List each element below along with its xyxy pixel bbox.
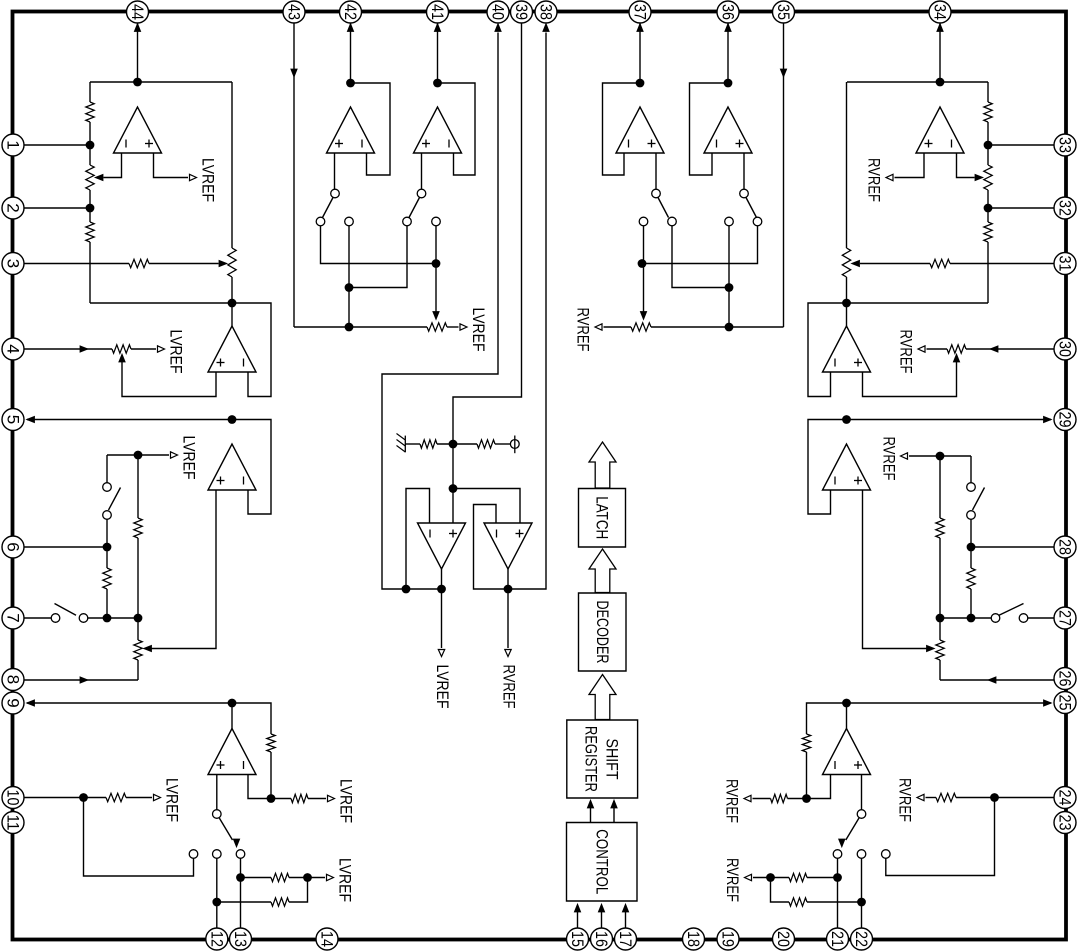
- svg-text:7: 7: [4, 613, 23, 622]
- wire U13 feedback loop box: [808, 420, 847, 515]
- op-amp U10: [704, 107, 752, 153]
- wire pin22 node to R23: [807, 901, 862, 903]
- switch S10 contact b: [857, 850, 866, 859]
- wire node to U14 apex: [846, 703, 848, 729]
- node U4 output junction: [228, 699, 237, 708]
- LVREF pointer pin4 row: [158, 346, 165, 352]
- svg-text:17: 17: [616, 931, 635, 947]
- RVREF pointer pin24 row: [917, 794, 924, 800]
- pin 39: [511, 1, 533, 23]
- wire S6 left contact to P6 wiper: [643, 226, 645, 312]
- wire pin12 node to R11: [217, 901, 271, 903]
- wire node down to switch S1: [106, 455, 108, 483]
- wire S5 right contact to P5 wiper: [435, 226, 437, 312]
- arrow pin15 into control: [574, 904, 580, 912]
- svg-text:LVREF: LVREF: [469, 308, 488, 352]
- wire R8 to LVREF arrow: [308, 798, 326, 800]
- wire S2 to junction nodes: [88, 617, 138, 619]
- wire pin 10 row: [25, 797, 107, 799]
- wire R19 to inverting node: [806, 752, 808, 799]
- node P5 top junction: [345, 323, 354, 332]
- wiper arrow P3: [119, 354, 125, 362]
- wire S9 to junction nodes: [940, 617, 991, 619]
- svg-text:33: 33: [1056, 137, 1075, 153]
- wire U14 inverting lead: [807, 775, 831, 799]
- node pin1 junction: [86, 141, 95, 150]
- wire pot to pin2 node: [89, 190, 91, 208]
- wire right feedback row horizontal: [847, 302, 989, 304]
- wire pin 31: [950, 263, 1054, 265]
- potentiometer P9: [947, 345, 966, 353]
- wire pin 27 to switch S9: [1028, 617, 1054, 619]
- pin 1: [2, 134, 24, 156]
- pin 22: [851, 928, 873, 950]
- wire U11 noninverting output to RVREF arrow: [895, 153, 925, 178]
- wire pin 9 row: [27, 702, 232, 704]
- wiper arrow P5: [433, 312, 439, 320]
- potentiometer P5: [427, 323, 447, 331]
- switch S3 contact a: [189, 850, 198, 859]
- arrow pin4 direction: [80, 346, 88, 352]
- potentiometer P10: [936, 640, 944, 660]
- wire U4 inverting lead: [248, 775, 271, 799]
- arrow into pin 29: [1044, 416, 1052, 422]
- LVREF pointer at U1: [190, 174, 197, 180]
- arrow into pin 40: [495, 24, 501, 32]
- RVREF pointer at U11: [886, 174, 893, 180]
- wire node to R2: [89, 208, 91, 222]
- svg-text:CONTROL: CONTROL: [592, 829, 611, 894]
- wire pin 8: [25, 679, 139, 681]
- node U1 output junction: [133, 78, 142, 87]
- pin 9: [2, 692, 24, 714]
- RVREF pointer row C right: [745, 874, 752, 880]
- wire ground to R12: [405, 443, 420, 445]
- wire pin 33: [988, 144, 1054, 146]
- wire node down to R4: [137, 455, 139, 518]
- arrow into pin 38: [543, 24, 549, 32]
- node right row a junction: [638, 259, 647, 268]
- wire pot to pin32 node: [987, 190, 989, 208]
- resistor R22: [789, 873, 807, 881]
- pin 6: [2, 536, 24, 558]
- node reference divider junction: [449, 440, 458, 449]
- svg-text:RVREF: RVREF: [500, 665, 519, 709]
- wire U2 noninverting lead to P3 wiper: [122, 361, 216, 397]
- arrow into pin 37: [637, 24, 643, 32]
- svg-text:20: 20: [774, 931, 793, 947]
- LVREF pointer P5 row: [460, 324, 467, 330]
- wire R15 down to feedback row: [987, 242, 989, 303]
- arrow decoder to latch output: [589, 442, 616, 488]
- arrow control to shift register a: [587, 800, 593, 808]
- resistor R23: [789, 898, 807, 906]
- wire U6 noninverting lead to switch S5 pivot: [421, 153, 423, 189]
- switch S5 blade: [409, 198, 420, 218]
- wire contact b to pin 22: [861, 859, 863, 929]
- switch S7 contact left: [725, 217, 734, 226]
- op-amp U7 LVREF buffer: [418, 523, 466, 569]
- pin 12: [206, 928, 228, 950]
- wire U4 noninverting lead to switch S3 pivot: [216, 775, 218, 810]
- switch S2 contact left: [51, 614, 60, 623]
- switch S4 blade: [323, 198, 334, 218]
- svg-text:10: 10: [4, 790, 23, 806]
- switch S5 contact right: [432, 217, 441, 226]
- wire node to U4 apex: [231, 703, 233, 729]
- svg-text:32: 32: [1056, 200, 1075, 216]
- wire reference node to right buffer: [453, 489, 520, 524]
- wire U9 feedback loop box: [603, 83, 641, 175]
- switch S9 contact right: [1019, 614, 1028, 623]
- wire U13 noninverting lead to P10 wiper: [863, 490, 928, 649]
- svg-text:13: 13: [231, 931, 250, 947]
- wire pin 37 to output node: [639, 24, 641, 84]
- wire node to U12 apex: [846, 303, 848, 326]
- svg-text:44: 44: [128, 4, 147, 20]
- RVREF node row wire: [909, 455, 971, 457]
- wire pin 29 row: [847, 419, 1052, 421]
- wire U10 noninverting lead to switch S7 pivot: [743, 153, 745, 189]
- wire R16 to P8 wiper: [860, 263, 930, 265]
- arrow pin26 direction: [988, 677, 996, 683]
- pin 20: [773, 928, 795, 950]
- wire output node horizontal: [847, 81, 988, 83]
- potentiometer P4: [134, 640, 142, 660]
- arrow pin16 into control: [598, 904, 604, 912]
- wire S7 left contact down: [728, 226, 730, 327]
- wire pin 24 row: [956, 797, 1054, 799]
- arrow pin8 direction: [80, 677, 88, 683]
- svg-text:RVREF: RVREF: [880, 437, 899, 481]
- op-amp U12: [823, 326, 871, 372]
- wire node to R20: [788, 798, 807, 800]
- wire pin 7 to switch S2: [25, 617, 52, 619]
- wire P2 to node: [231, 277, 233, 303]
- pin 34: [929, 1, 951, 23]
- switch S7 pivot: [740, 189, 749, 198]
- wire R20 to RVREF arrow: [753, 798, 771, 800]
- wire pin 6: [25, 546, 108, 548]
- switch S4 contact right: [345, 217, 354, 226]
- svg-text:3: 3: [4, 259, 23, 268]
- wire pin 15 to control: [577, 905, 579, 928]
- svg-text:34: 34: [931, 4, 950, 20]
- wire pin 32: [988, 207, 1054, 209]
- wire P3 to LVREF arrow: [131, 348, 156, 350]
- resistor R13: [477, 440, 495, 448]
- wire U1 noninverting output to LVREF arrow: [154, 153, 189, 178]
- LVREF pointer row C: [327, 874, 334, 880]
- node pin7 junction a: [103, 614, 112, 623]
- switch S3 blade: [219, 818, 232, 840]
- pin 43: [283, 1, 305, 23]
- svg-text:RVREF: RVREF: [896, 778, 915, 822]
- wire pin 17 to control: [625, 905, 627, 928]
- resistor R15: [984, 222, 992, 242]
- arrow pin17 into control: [622, 904, 628, 912]
- block CONTROL: [567, 823, 638, 902]
- wire U12 noninverting lead to P9 wiper: [863, 361, 957, 397]
- node pin10 junction: [79, 793, 88, 802]
- svg-text:LVREF: LVREF: [167, 330, 186, 374]
- node U14 inverting junction: [802, 794, 811, 803]
- wire R13 to terminal: [495, 443, 510, 445]
- svg-text:RVREF: RVREF: [723, 858, 742, 902]
- wire R2 down to feedback row: [89, 242, 91, 303]
- wire pin 4: [25, 348, 113, 350]
- wire left branch down: [89, 82, 91, 102]
- node U4 inverting junction: [267, 794, 276, 803]
- wire pin35 row to P6: [651, 326, 784, 328]
- arrow into pin 42: [347, 24, 353, 32]
- switch S6 contact right: [668, 217, 677, 226]
- wire R22 to RVREF node: [753, 877, 789, 879]
- node right row b junction: [725, 283, 734, 292]
- svg-text:5: 5: [4, 415, 23, 424]
- wire P9 to RVREF arrow: [927, 348, 948, 350]
- arrow into pin 41: [434, 24, 440, 32]
- node pin22 junction: [857, 898, 866, 907]
- wire U5 feedback loop box: [351, 83, 391, 175]
- wire pin 36 to output node: [727, 24, 729, 84]
- wire U6 feedback loop box: [438, 83, 476, 175]
- pin 15: [567, 928, 589, 950]
- svg-text:36: 36: [719, 4, 738, 20]
- wire P5 to LVREF arrow: [447, 326, 459, 328]
- node pin7 junction b: [134, 614, 143, 623]
- resistor R3: [129, 259, 149, 267]
- RVREF pointer P6 row: [595, 324, 602, 330]
- pin 4: [2, 338, 24, 360]
- resistor R1: [86, 102, 94, 122]
- wire R23 up to RVREF node: [771, 878, 790, 903]
- LVREF pointer pin10 row: [154, 794, 161, 800]
- switch S3 contact b: [213, 850, 222, 859]
- pin 26: [1054, 668, 1076, 690]
- wire contact c to pin 13: [240, 859, 242, 929]
- pin 5: [2, 409, 24, 431]
- resistor R12: [420, 440, 437, 448]
- wire S8 to pin28 node: [970, 519, 972, 547]
- svg-text:LATCH: LATCH: [593, 496, 612, 539]
- node pin29 junction: [842, 415, 851, 424]
- resistor R16: [930, 259, 950, 267]
- switch S1 contact bottom: [103, 511, 112, 520]
- node U10 output junction: [724, 79, 733, 88]
- arrow pin43 direction: [291, 69, 297, 77]
- svg-text:39: 39: [512, 4, 531, 20]
- wire U7 feedback: [406, 489, 430, 590]
- wire pin 1: [25, 144, 91, 146]
- wire pin 39 vertical: [453, 12, 522, 523]
- node U7 feedback junction: [402, 585, 411, 594]
- wire P6 to RVREF arrow: [604, 326, 632, 328]
- pin 30: [1054, 338, 1076, 360]
- wire S1 to pin6 node: [106, 519, 108, 547]
- svg-text:28: 28: [1056, 539, 1075, 555]
- switch S10 contact c: [882, 850, 891, 859]
- wire pin44 to output node: [137, 24, 139, 83]
- wire pin 42 to output node: [350, 24, 352, 84]
- svg-text:12: 12: [207, 931, 226, 947]
- wire output node to R7: [232, 703, 271, 734]
- arrow switch S3 blade: [233, 839, 239, 847]
- switch S4 contact left: [316, 217, 325, 226]
- wire node to P4: [137, 618, 139, 640]
- svg-text:22: 22: [852, 931, 871, 947]
- svg-text:21: 21: [828, 931, 847, 947]
- switch S1 blade: [109, 488, 121, 511]
- svg-text:RVREF: RVREF: [865, 158, 884, 202]
- pin 19: [717, 928, 739, 950]
- op-amp U4: [208, 729, 256, 775]
- resistor R9: [106, 793, 126, 801]
- wire contact a to pin 21: [837, 859, 839, 929]
- op-amp U9: [616, 107, 664, 153]
- svg-text:LVREF: LVREF: [180, 436, 199, 480]
- svg-text:2: 2: [4, 203, 23, 212]
- potentiometer P7: [984, 165, 992, 190]
- wire R21 to RVREF arrow: [926, 797, 937, 799]
- wiper arrow P2 from pin3 network: [219, 260, 227, 266]
- wire output node to R19: [807, 703, 847, 734]
- svg-text:1: 1: [4, 140, 23, 149]
- resistor R5: [103, 568, 111, 589]
- wiper arrow P7: [975, 174, 983, 180]
- wire node to R8: [271, 798, 291, 800]
- wire P7 wiper to U11 inverting input: [957, 153, 975, 178]
- pin 11: [2, 812, 24, 834]
- svg-text:25: 25: [1056, 695, 1075, 711]
- switch S10 contact a: [833, 850, 842, 859]
- block LATCH: [579, 489, 626, 548]
- arrow pin30 direction: [990, 346, 998, 352]
- svg-text:LVREF: LVREF: [337, 779, 356, 823]
- node U5 output junction: [346, 79, 355, 88]
- wire U10 feedback loop box: [690, 83, 729, 175]
- LVREF node row wire: [107, 454, 169, 456]
- pin 33: [1054, 134, 1076, 156]
- op-amp U8 RVREF buffer: [484, 523, 532, 569]
- switch S7 blade: [746, 198, 757, 218]
- wire node to R5: [106, 547, 108, 568]
- node pin21 junction: [833, 873, 842, 882]
- wire node to pot P7: [987, 145, 989, 165]
- wiper arrow P6: [640, 312, 646, 320]
- node pin28 junction: [967, 543, 976, 552]
- node pin24 junction: [990, 793, 999, 802]
- node pin6 junction: [103, 543, 112, 552]
- wire feedback row horizontal: [90, 302, 232, 304]
- node pin33 junction: [984, 141, 993, 150]
- wire P10 to pin26 row: [939, 660, 941, 680]
- wire node to R18: [970, 547, 972, 568]
- pin 7: [2, 607, 24, 629]
- arrow into pin 9: [27, 700, 35, 706]
- node pin27 junction b: [936, 614, 945, 623]
- pin 27: [1054, 607, 1076, 629]
- svg-text:30: 30: [1056, 341, 1075, 357]
- wire pin 38 vertical: [508, 33, 546, 590]
- arrow pin35 direction: [780, 69, 786, 77]
- wiper arrow P10: [927, 645, 935, 651]
- wire U8 output to RVREF arrow: [507, 569, 509, 648]
- wire control to shift register a: [590, 801, 592, 823]
- terminal pin cap connection: [510, 440, 519, 449]
- block SHIFT REGISTER: [567, 720, 638, 798]
- wire pin 35 vertical: [783, 24, 785, 328]
- pin 24: [1054, 787, 1076, 809]
- pin 28: [1054, 536, 1076, 558]
- pin 32: [1054, 197, 1076, 219]
- svg-text:26: 26: [1056, 671, 1075, 687]
- arrow into pin 5: [27, 416, 35, 422]
- wire node to U2 apex: [231, 303, 233, 326]
- wire pin10 node to contact a: [84, 798, 194, 877]
- resistor R14: [984, 102, 992, 122]
- switch S3 contact c: [236, 850, 245, 859]
- wire pin 16 to control: [601, 905, 603, 928]
- wire row b horizontal: [349, 226, 407, 288]
- wire U5 noninverting lead to switch S4 pivot: [334, 153, 336, 189]
- wire node to P10: [939, 618, 941, 640]
- arrow into pin 25: [1044, 700, 1052, 706]
- wire R7 to inverting node: [270, 752, 272, 799]
- pin 2: [2, 197, 24, 219]
- wire pin 28: [971, 546, 1054, 548]
- svg-text:8: 8: [4, 675, 23, 684]
- wire S4 right contact down: [348, 226, 350, 327]
- potentiometer P6: [631, 323, 651, 331]
- op-amp U14: [823, 729, 871, 775]
- op-amp U2: [208, 326, 256, 372]
- switch S2 contact right: [79, 614, 88, 623]
- node U7 output junction: [437, 585, 446, 594]
- svg-text:19: 19: [719, 931, 738, 947]
- resistor R18: [967, 568, 975, 589]
- pin 13: [230, 928, 252, 950]
- node LVREF feed junction: [134, 451, 143, 460]
- wire right row b horizontal: [672, 226, 729, 288]
- svg-text:29: 29: [1056, 412, 1075, 428]
- pin 31: [1054, 253, 1076, 275]
- LVREF pointer buffer output: [438, 650, 444, 657]
- switch S6 blade: [658, 198, 669, 218]
- resistor R17: [936, 518, 944, 538]
- wire pin 41 to output node: [437, 24, 439, 84]
- op-amp U5: [327, 107, 375, 153]
- node LVREF row C junction: [303, 873, 312, 882]
- switch S8 contact top: [967, 483, 976, 492]
- wire pin21 node to R22: [807, 877, 838, 879]
- pin 42: [340, 1, 362, 23]
- svg-text:41: 41: [428, 4, 447, 20]
- arrow shift register to decoder: [589, 675, 616, 720]
- resistor R4: [134, 518, 142, 538]
- node pin27 junction a: [967, 614, 976, 623]
- node U6 output junction: [433, 79, 442, 88]
- svg-text:LVREF: LVREF: [433, 665, 452, 709]
- node U8 output junction: [504, 585, 513, 594]
- arrow into pin 44: [134, 24, 140, 32]
- potentiometer P3: [112, 345, 131, 353]
- node row b junction: [345, 283, 354, 292]
- svg-text:DECODER: DECODER: [593, 601, 612, 664]
- resistor R19: [802, 734, 810, 752]
- switch S10 blade: [846, 818, 859, 840]
- svg-text:LVREF: LVREF: [163, 778, 182, 822]
